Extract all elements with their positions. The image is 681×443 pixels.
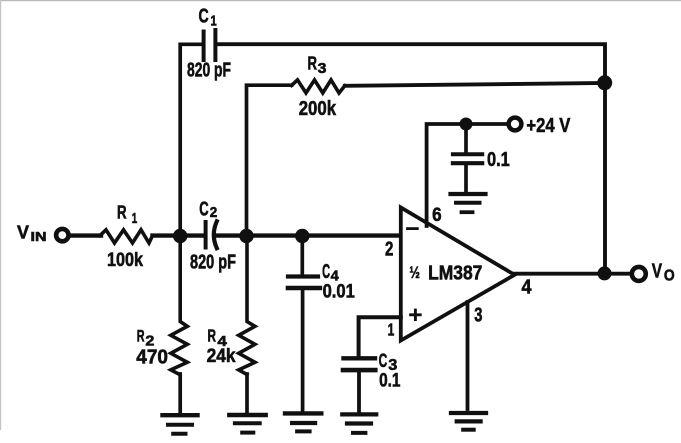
svg-text:2: 2 [385,238,393,260]
svg-text:1: 1 [211,13,217,30]
ground (R4) [229,413,265,417]
svg-text:O: O [664,267,675,284]
capacitor C3 bottom plate [343,368,375,373]
ground (C3) [342,412,376,416]
resistor R2 [171,236,188,375]
svg-text:1: 1 [132,210,138,227]
svg-text:3: 3 [474,304,482,326]
wire C1 to top right corner [217,44,605,83]
op-amp U1 triangle [401,208,515,341]
wire R3 to node C [345,83,605,86]
resistor R4 [239,236,255,375]
plus sign pin1 [411,310,421,319]
node VIN terminal [56,229,68,241]
svg-text:0.01: 0.01 [323,280,355,302]
wire pin3 to ground [466,302,470,409]
junction node C dot [597,75,612,90]
capacitor C1 left plate [202,32,206,61]
svg-text:+24 V: +24 V [526,114,570,137]
svg-text:V: V [652,260,663,282]
scan edge artifact left [0,0,1,430]
wire C2 to op-amp pin 2 [218,233,401,237]
svg-text:820 pF: 820 pF [190,252,236,274]
wire R1 to node A and on to C2 [153,233,204,237]
svg-text:1: 1 [388,320,395,340]
junction output node dot [598,266,612,280]
svg-text:3: 3 [318,60,327,77]
wire R4 to ground [245,374,249,414]
svg-text:C: C [379,350,388,372]
scan edge artifact top [0,0,681,1]
capacitor C2 right plate [214,221,217,248]
svg-text:820 pF: 820 pF [187,60,231,82]
svg-text:6: 6 [432,204,442,226]
svg-text:IN: IN [31,230,47,244]
svg-text:4: 4 [522,275,533,298]
resistor R3 [292,80,345,93]
node +24V terminal [509,118,522,131]
node VO terminal [632,267,646,281]
svg-text:0.1: 0.1 [487,149,510,171]
wire pin6 up to supply rail [427,124,509,226]
svg-text:½: ½ [409,263,420,282]
junction node A dot [173,229,187,243]
resistor R1 [100,230,153,243]
capacitor C2 left plate [204,222,208,248]
svg-text:R: R [137,328,145,346]
svg-text:24k: 24k [207,346,236,367]
junction node B dot [239,229,253,243]
capacitor C4 top plate [288,274,318,278]
svg-text:V: V [17,222,30,243]
wire node A up to C1 [180,44,201,235]
ground (R2) [163,413,198,417]
capacitor bypass lead top [464,124,468,152]
capacitor C4 bottom plate [288,286,320,291]
capacitor bypass 0.1 bottom plate [453,161,482,165]
minus sign pin2 [408,227,418,230]
svg-text:R: R [308,54,318,74]
svg-text:0.1: 0.1 [379,370,401,392]
junction supply node dot [460,118,473,131]
capacitor C3 top plate [344,356,376,360]
wire C3 to ground [357,372,361,412]
svg-text:R: R [208,326,217,346]
svg-text:2: 2 [210,204,218,221]
capacitor bypass 0.1 top plate [453,152,482,156]
wire R2 to ground [178,374,182,414]
ground (C4) [285,411,321,415]
wire bypass cap to ground [464,165,468,192]
svg-text:C: C [199,198,209,221]
svg-text:100k: 100k [107,249,143,271]
svg-text:C: C [199,5,209,28]
junction node D dot [295,229,309,243]
wire output [515,272,631,276]
svg-text:470: 470 [136,347,168,369]
wire C4 to ground [301,290,305,411]
ground (bypass) [451,192,486,196]
svg-text:R: R [117,203,127,223]
wire node D down to C4 [300,236,304,275]
wire node B up to R3 [247,85,292,235]
wire input to R1 [70,233,101,237]
ground (pin3) [451,411,486,415]
svg-text:LM387: LM387 [428,262,482,285]
capacitor C1 right plate [213,30,217,60]
wire node C down to output node [603,83,607,274]
svg-text:200k: 200k [299,97,337,120]
wire pin1 to C3 [359,317,401,355]
